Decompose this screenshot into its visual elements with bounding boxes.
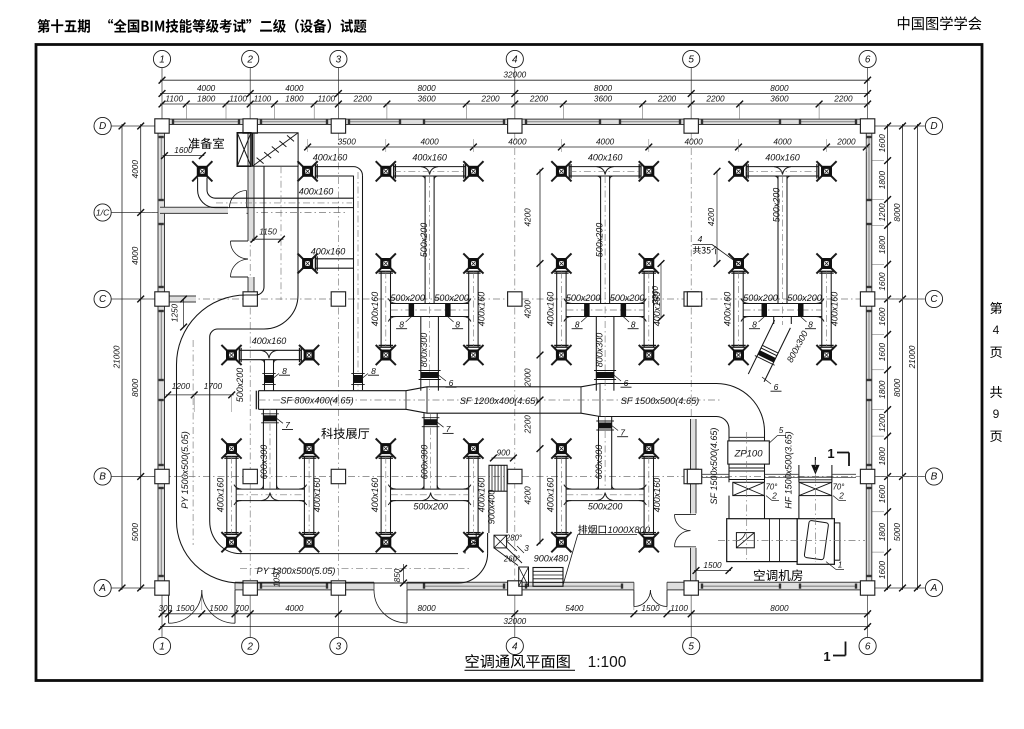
svg-text:21000: 21000 xyxy=(908,345,917,369)
door double leaf bottom-left entrance xyxy=(168,590,170,623)
AHU unit 1 fan symbol xyxy=(736,533,754,548)
windows left wall xyxy=(160,137,162,200)
svg-text:2000: 2000 xyxy=(524,368,533,388)
svg-text:6: 6 xyxy=(865,55,871,66)
svg-text:6: 6 xyxy=(865,642,871,653)
svg-text:8: 8 xyxy=(399,319,404,329)
svg-text:1200: 1200 xyxy=(878,203,887,222)
svg-text:1250: 1250 xyxy=(171,303,180,322)
bottom wall extension stubs xyxy=(168,592,170,610)
svg-text:1800: 1800 xyxy=(197,94,216,103)
T-branch 400x160 bay2 with diffusers xyxy=(394,166,466,168)
svg-text:400x160: 400x160 xyxy=(723,292,733,327)
svg-text:1800: 1800 xyxy=(878,522,887,541)
svg-text:3: 3 xyxy=(336,55,342,66)
svg-text:21000: 21000 xyxy=(113,345,122,369)
svg-text:1800: 1800 xyxy=(878,447,887,466)
grid axis bubbles right D C B A xyxy=(925,117,942,134)
svg-text:1500: 1500 xyxy=(703,561,722,570)
riser 500x200 from trunk to T-branch bay2 xyxy=(424,176,426,304)
svg-text:8000: 8000 xyxy=(770,604,789,613)
svg-text:7: 7 xyxy=(446,424,451,434)
bottom dimension overall 32000 xyxy=(160,626,870,628)
svg-text:4: 4 xyxy=(993,323,1000,337)
grid axis bubbles top 1-6 xyxy=(153,50,170,67)
svg-text:1600: 1600 xyxy=(878,343,887,362)
right dimension chain 8000/8000/5000 xyxy=(902,124,904,590)
trunk transition 1200 to 1500 xyxy=(581,384,600,417)
svg-text:4000: 4000 xyxy=(684,137,703,146)
svg-text:1150: 1150 xyxy=(259,228,277,237)
svg-text:8000: 8000 xyxy=(770,84,789,93)
svg-text:4000: 4000 xyxy=(773,137,792,146)
right exterior wall xyxy=(866,119,872,590)
svg-text:600x300: 600x300 xyxy=(259,445,269,480)
internal dim row 3500/4000s at top xyxy=(306,146,869,148)
svg-text:1600: 1600 xyxy=(878,560,887,579)
svg-text:400x160: 400x160 xyxy=(545,292,555,327)
prep room flexible duct box with diagonal hatch xyxy=(253,133,299,166)
lower H assembly bay3 xyxy=(556,456,558,534)
svg-text:3600: 3600 xyxy=(594,94,613,103)
svg-text:1500: 1500 xyxy=(176,604,195,613)
intake angled connector to wall louvre xyxy=(494,548,518,566)
riser 800x300 below cross bay2 with damper tag 6 xyxy=(420,317,422,391)
cross assembly bay4 xyxy=(733,271,735,347)
svg-text:6: 6 xyxy=(624,378,629,388)
riser 800x300 below cross bay3 with damper tag 6 xyxy=(595,317,597,391)
svg-text:8000: 8000 xyxy=(893,203,902,222)
right wall extension stubs xyxy=(872,125,884,127)
door double leaf bottom-right xyxy=(633,590,635,607)
svg-text:1050: 1050 xyxy=(273,568,282,587)
svg-text:4000: 4000 xyxy=(285,84,304,93)
left dimension overall 21000 xyxy=(121,124,123,590)
svg-text:SF 1200x400(4.65): SF 1200x400(4.65) xyxy=(460,396,539,406)
dimension 900 at intake xyxy=(491,457,515,459)
intake duct 900x400 down xyxy=(488,491,490,533)
svg-text:800x300: 800x300 xyxy=(419,333,429,368)
svg-text:400x160: 400x160 xyxy=(216,478,226,513)
PY east end elbow up xyxy=(458,553,488,583)
svg-text:1200: 1200 xyxy=(172,382,191,391)
svg-text:1: 1 xyxy=(159,642,165,653)
svg-text:1: 1 xyxy=(159,55,165,66)
svg-text:32000: 32000 xyxy=(503,71,526,80)
left dimension chain 4000/4000/8000/5000 xyxy=(140,124,142,590)
lower H assembly bay1 600x300 riser xyxy=(226,456,228,534)
svg-text:B: B xyxy=(931,472,938,483)
svg-text:2: 2 xyxy=(246,55,253,66)
PY duct vertical from prep equipment xyxy=(263,166,265,287)
svg-text:HF 1500x500(3.65): HF 1500x500(3.65) xyxy=(783,431,793,508)
svg-text:400x160: 400x160 xyxy=(765,153,800,163)
svg-text:400x160: 400x160 xyxy=(312,478,322,513)
svg-text:500x200: 500x200 xyxy=(390,293,425,303)
svg-text:2200: 2200 xyxy=(524,415,533,435)
svg-text:400x160: 400x160 xyxy=(830,292,840,327)
svg-text:8: 8 xyxy=(282,366,287,376)
AHU unit 2 outline xyxy=(797,519,834,565)
svg-text:500x200: 500x200 xyxy=(743,293,778,303)
dim 1600 prep room xyxy=(163,155,205,157)
svg-text:800x300: 800x300 xyxy=(594,333,604,368)
svg-text:500x200: 500x200 xyxy=(434,293,469,303)
svg-text:500x200: 500x200 xyxy=(787,293,822,303)
equipment centerline dashed xyxy=(718,540,865,542)
svg-text:400x160: 400x160 xyxy=(588,153,623,163)
top exterior wall along D xyxy=(158,119,872,124)
svg-text:400x160: 400x160 xyxy=(311,247,346,257)
svg-text:PY 1500x500(5.05): PY 1500x500(5.05) xyxy=(180,431,190,508)
T-branch 400x160 bay4 with diffusers xyxy=(746,166,818,168)
svg-text:4200: 4200 xyxy=(524,300,533,319)
svg-text:D: D xyxy=(99,121,106,132)
svg-text:3600: 3600 xyxy=(417,94,436,103)
svg-text:850: 850 xyxy=(393,568,402,582)
svg-text:ZP100: ZP100 xyxy=(734,449,764,460)
svg-text:8: 8 xyxy=(371,366,376,376)
svg-text:2200: 2200 xyxy=(651,285,660,305)
trunk transition 800 to 1200 xyxy=(406,387,427,413)
svg-text:2200: 2200 xyxy=(480,94,500,103)
grid axis bubbles bottom 1-6 xyxy=(153,637,170,654)
svg-text:1600: 1600 xyxy=(878,272,887,291)
left exterior wall xyxy=(158,119,165,590)
structural columns at grid intersections xyxy=(155,119,169,133)
svg-text:500x200: 500x200 xyxy=(588,502,623,512)
riser 500x200 bay3 xyxy=(600,176,602,304)
windows top wall xyxy=(173,121,239,123)
svg-text:1100: 1100 xyxy=(229,94,247,103)
svg-text:4000: 4000 xyxy=(596,137,615,146)
supply trunk SF 800x400 segment xyxy=(259,390,407,392)
T-branch 400x160 bay3 with diffusers xyxy=(569,166,641,168)
grid axis bubbles left D 1/C C B A xyxy=(94,117,111,134)
svg-text:SF 1500x500(4.65): SF 1500x500(4.65) xyxy=(709,428,719,505)
svg-text:C: C xyxy=(930,294,938,305)
svg-text:400x160: 400x160 xyxy=(476,478,486,513)
PY bottom elbow xyxy=(177,521,241,583)
bottom dimension chain detail 300/1500/1500/700/4000/8000/5400/1500/1100/8000 xyxy=(160,613,870,615)
svg-text:1800: 1800 xyxy=(285,94,304,103)
supply trunk SF 1200x400 segment xyxy=(427,386,581,388)
room label 1500 dim xyxy=(694,570,731,572)
svg-text:3: 3 xyxy=(336,642,342,653)
svg-text:2: 2 xyxy=(771,492,777,501)
SF duct below silencer to AHU xyxy=(728,464,730,482)
svg-text:8: 8 xyxy=(455,319,460,329)
bottom exterior wall along A xyxy=(158,582,872,590)
prep room fire damper box with X xyxy=(237,133,251,166)
C axis wall stub left xyxy=(160,296,196,302)
svg-text:1600: 1600 xyxy=(878,134,887,153)
svg-text:2200: 2200 xyxy=(529,94,549,103)
svg-text:400x160: 400x160 xyxy=(652,478,662,513)
AHU unit 2 fan drum xyxy=(804,520,829,560)
PY 1500x500 duct down left side xyxy=(176,365,178,522)
door bottom-middle xyxy=(406,590,408,623)
top dimension chain overall 32000 xyxy=(160,79,870,81)
svg-text:8: 8 xyxy=(808,319,813,329)
interior partition wall right of hall xyxy=(691,419,697,582)
cross assembly bay3 xyxy=(556,271,558,347)
trunk centerline xyxy=(259,399,721,401)
vertical grid centerlines xyxy=(161,119,163,590)
svg-text:500x200: 500x200 xyxy=(419,223,429,258)
svg-text:70°: 70° xyxy=(833,483,845,492)
windows bottom wall xyxy=(261,585,327,587)
svg-text:2200: 2200 xyxy=(657,94,677,103)
svg-text:5: 5 xyxy=(688,55,694,66)
svg-text:1600: 1600 xyxy=(878,307,887,326)
svg-text:4000: 4000 xyxy=(420,137,439,146)
svg-text:3500: 3500 xyxy=(338,137,357,146)
riser 500x200 bay4 xyxy=(777,176,779,304)
svg-text:400x160: 400x160 xyxy=(476,292,486,327)
svg-text:1100: 1100 xyxy=(254,94,272,103)
svg-text:1200: 1200 xyxy=(878,413,887,432)
svg-text:500x200: 500x200 xyxy=(235,368,245,403)
svg-text:400x160: 400x160 xyxy=(313,153,348,163)
internal dim chain mid 4200/4200/2000/2200/4200 xyxy=(539,169,541,544)
top dimension chain detail 1100..2200 xyxy=(160,103,870,105)
svg-text:2: 2 xyxy=(246,642,253,653)
svg-text:2: 2 xyxy=(838,492,844,501)
svg-text:6: 6 xyxy=(449,378,454,388)
dim 1150 prep room xyxy=(252,238,283,240)
svg-text:6: 6 xyxy=(774,382,779,392)
svg-text:900: 900 xyxy=(497,449,511,458)
svg-text:B: B xyxy=(99,472,106,483)
damper tag 8 riser bay1b xyxy=(354,375,363,383)
svg-text:8: 8 xyxy=(752,319,757,329)
supply trunk SF 1500x500 segment xyxy=(600,383,717,385)
right dimension overall 21000 xyxy=(916,124,918,590)
svg-text:1800: 1800 xyxy=(878,171,887,190)
svg-text:1: 1 xyxy=(827,446,834,461)
svg-text:2000: 2000 xyxy=(836,137,856,146)
svg-text:700: 700 xyxy=(235,604,249,613)
internal dim 4200 right xyxy=(716,171,718,263)
svg-text:5000: 5000 xyxy=(131,523,140,542)
right dimension chain detail xyxy=(887,124,889,590)
svg-text:500x200: 500x200 xyxy=(566,293,601,303)
riser 500x200 bay1 to trunk with damper tag 8 xyxy=(264,360,266,391)
svg-text:400x160: 400x160 xyxy=(545,478,555,513)
svg-text:1100: 1100 xyxy=(670,604,688,613)
svg-text:1100: 1100 xyxy=(317,94,335,103)
svg-text:3: 3 xyxy=(524,544,529,553)
svg-text:8000: 8000 xyxy=(594,84,613,93)
svg-text:4200: 4200 xyxy=(524,208,533,227)
horizontal grid centerline B xyxy=(145,476,925,478)
svg-text:8: 8 xyxy=(575,319,580,329)
svg-text:500x200: 500x200 xyxy=(594,223,604,258)
svg-text:2200: 2200 xyxy=(705,94,725,103)
svg-text:8000: 8000 xyxy=(417,84,436,93)
svg-text:C: C xyxy=(99,294,107,305)
branch 400x160 row3 bay1 with diffusers xyxy=(239,349,301,351)
svg-text:D: D xyxy=(930,121,937,132)
svg-text:600x300: 600x300 xyxy=(419,445,429,480)
silencer ZP100 xyxy=(728,441,770,464)
wall louvre 900x480 with X panel xyxy=(519,567,529,586)
svg-text:400x160: 400x160 xyxy=(370,292,380,327)
svg-text:A: A xyxy=(98,583,106,594)
svg-text:2200: 2200 xyxy=(833,94,853,103)
diffuser branch elbow at prep room xyxy=(315,166,353,168)
riser 500x200 below elbow bay1 xyxy=(353,176,355,390)
dim 1200 1700 left xyxy=(166,394,234,396)
svg-text:8: 8 xyxy=(631,319,636,329)
svg-text:9: 9 xyxy=(993,407,1000,421)
trunk elbow down to AHU riser xyxy=(717,384,765,432)
prep room east wall with door opening xyxy=(248,125,254,242)
lower H assembly bay2 xyxy=(380,456,382,534)
svg-text:5400: 5400 xyxy=(565,604,584,613)
svg-text:900x480: 900x480 xyxy=(534,554,569,564)
svg-text:4: 4 xyxy=(512,55,518,66)
tag 1 leader AHU xyxy=(826,562,836,570)
svg-text:8000: 8000 xyxy=(131,378,140,397)
svg-text:32000: 32000 xyxy=(503,617,526,626)
internal dim 2200 right xyxy=(660,264,662,319)
horizontal grid centerline C xyxy=(145,298,925,300)
svg-text:PY 1300x500(5.05): PY 1300x500(5.05) xyxy=(256,566,335,576)
svg-text:A: A xyxy=(930,583,938,594)
svg-text:1500: 1500 xyxy=(209,604,228,613)
svg-text:1800: 1800 xyxy=(878,380,887,399)
intake louvre 900x400 hatched box xyxy=(489,465,507,491)
svg-text:SF 1500x500(4.65): SF 1500x500(4.65) xyxy=(621,396,700,406)
svg-text:4000: 4000 xyxy=(508,137,527,146)
svg-text:4000: 4000 xyxy=(285,604,304,613)
door prep room south wall xyxy=(228,206,247,214)
svg-text:7: 7 xyxy=(620,427,625,437)
intake flex connection small X box xyxy=(494,535,507,548)
svg-text:400x160: 400x160 xyxy=(299,187,334,197)
room label exhibition hall xyxy=(321,428,369,439)
svg-text:1: 1 xyxy=(823,649,830,664)
svg-text:SF 800x400(4.65): SF 800x400(4.65) xyxy=(280,395,353,405)
svg-text:400x160: 400x160 xyxy=(370,478,380,513)
branch 400x160 from prep room diffuser down xyxy=(192,161,199,168)
svg-text:8000: 8000 xyxy=(417,604,436,613)
HF fresh air duct xyxy=(798,465,800,482)
svg-text:400x160: 400x160 xyxy=(252,336,287,346)
cross assembly bay2 around riser xyxy=(380,271,382,347)
svg-text:400x160: 400x160 xyxy=(412,153,447,163)
svg-text:1600: 1600 xyxy=(174,146,193,155)
svg-text:500x200: 500x200 xyxy=(610,293,645,303)
title: exam title top-left xyxy=(37,19,89,33)
svg-text:4000: 4000 xyxy=(131,160,140,179)
room label prep room xyxy=(189,138,224,149)
svg-text:1700: 1700 xyxy=(204,382,223,391)
angled duct 800x300 from cross bay4 to trunk xyxy=(773,317,775,325)
svg-text:3600: 3600 xyxy=(770,94,789,103)
door prep room east wall double leaf xyxy=(231,240,249,242)
svg-text:1:100: 1:100 xyxy=(588,654,627,671)
PY 1300x500 duct along bottom xyxy=(240,553,458,555)
svg-text:8000: 8000 xyxy=(893,378,902,397)
svg-text:5: 5 xyxy=(688,642,694,653)
AHU room north boundary wall segments xyxy=(702,473,730,475)
flexible connection HF with X xyxy=(799,482,832,495)
svg-text:4: 4 xyxy=(512,642,518,653)
top dimension chain axis spans 4000/4000/8000/8000/8000 xyxy=(160,93,870,95)
svg-text:70°: 70° xyxy=(766,483,778,492)
svg-text:7: 7 xyxy=(285,420,290,430)
svg-text:4: 4 xyxy=(698,234,703,244)
dim 1250 left xyxy=(183,299,185,327)
windows right wall xyxy=(868,137,870,200)
svg-text:4200: 4200 xyxy=(524,486,533,505)
svg-text:5000: 5000 xyxy=(893,523,902,542)
svg-text:1500: 1500 xyxy=(641,604,660,613)
title: society name top-right xyxy=(898,16,982,30)
svg-text:1/C: 1/C xyxy=(96,208,110,218)
door AHU room in partition wall xyxy=(675,514,691,516)
svg-text:1800: 1800 xyxy=(878,235,887,254)
page number text right margin: 第4页 共9页 xyxy=(990,302,1002,314)
svg-text:500x200: 500x200 xyxy=(772,188,782,223)
svg-text:300: 300 xyxy=(158,604,172,613)
tag 5 leader xyxy=(769,436,777,444)
PY duct S-bend to left xyxy=(177,287,265,365)
smoke vent label with leader xyxy=(578,525,606,534)
svg-text:4000: 4000 xyxy=(131,246,140,265)
svg-text:1100: 1100 xyxy=(165,94,183,103)
svg-text:1000X800: 1000X800 xyxy=(608,525,651,535)
prep room south wall on 1/C xyxy=(160,207,254,213)
flexible connection SF with X xyxy=(733,482,765,495)
svg-text:500x200: 500x200 xyxy=(413,502,448,512)
svg-text:2200: 2200 xyxy=(352,94,372,103)
AHU unit 1 outline xyxy=(727,519,797,562)
svg-text:1600: 1600 xyxy=(878,485,887,504)
horizontal grid centerline 1/C xyxy=(145,212,345,214)
drawing title bottom xyxy=(466,654,570,668)
svg-text:600x300: 600x300 xyxy=(594,445,604,480)
svg-text:900x400: 900x400 xyxy=(487,490,497,525)
svg-text:4200: 4200 xyxy=(707,207,716,226)
room label AHU room xyxy=(754,569,802,581)
svg-text:280°: 280° xyxy=(505,534,522,543)
branch 400x160 mid to riser bay1 xyxy=(315,258,353,260)
svg-text:4000: 4000 xyxy=(197,84,216,93)
svg-text:1: 1 xyxy=(838,561,843,570)
